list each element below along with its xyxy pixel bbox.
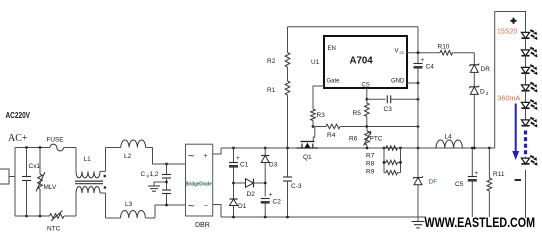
- node Cv bottom: [165, 204, 168, 207]
- svg-text:C: C: [141, 171, 146, 178]
- wire LED4 to LED5: [525, 91, 527, 103]
- svg-text:R10: R10: [438, 44, 450, 51]
- node CS: [365, 98, 368, 101]
- svg-text:DBR: DBR: [195, 222, 210, 229]
- wire down to DR: [473, 53, 475, 65]
- node Vcc/C4: [417, 51, 420, 54]
- wire CS pin down: [366, 88, 368, 99]
- svg-text:+: +: [204, 153, 208, 160]
- node GND pin: [417, 82, 420, 85]
- svg-text:D: D: [480, 89, 485, 96]
- svg-text:GND: GND: [391, 79, 405, 85]
- node Cv top: [165, 163, 168, 166]
- svg-text:∼: ∼: [188, 201, 196, 211]
- diode Dz: [469, 86, 479, 88]
- resistor R8: [386, 160, 398, 164]
- wire DBR- out: [213, 205, 221, 218]
- node D1 bottom: [232, 216, 235, 219]
- wire top to R2: [287, 27, 289, 53]
- node MLV top: [39, 146, 42, 149]
- wire node to R4: [315, 126, 326, 128]
- wire bottom rail: [221, 216, 426, 218]
- svg-text:cc: cc: [400, 50, 405, 55]
- wire AC top line: [15, 147, 50, 149]
- node R11 top: [488, 147, 491, 150]
- diode D1: [230, 198, 238, 200]
- wire top rail: [288, 26, 419, 28]
- wire R1 to rail: [287, 95, 289, 148]
- wire R2 to R1: [287, 67, 289, 81]
- capacitor C5 (electrolytic): [471, 148, 473, 177]
- node C-3 bottom: [286, 216, 289, 219]
- wire Cv mid to ground: [154, 182, 167, 186]
- wire AC+ left vertical: [14, 148, 16, 217]
- LED D2: [521, 50, 529, 56]
- wire LED string bottom: [525, 170, 527, 218]
- svg-text:1,2: 1,2: [150, 171, 159, 178]
- node Cv mid: [165, 181, 168, 184]
- varistor MLV: [39, 148, 41, 175]
- diode DF symbol: [413, 176, 423, 178]
- node R5/R6: [365, 125, 368, 128]
- svg-text:CS: CS: [362, 83, 370, 89]
- svg-text:NTC: NTC: [47, 226, 61, 233]
- node C2 bottom: [264, 216, 267, 219]
- node rail/GND bus: [417, 147, 420, 150]
- svg-text:R7: R7: [366, 153, 375, 160]
- dashed continuation (omitted LEDs): [524, 131, 527, 157]
- capacitor Cv1: [166, 164, 168, 175]
- minus LED string: [515, 179, 522, 181]
- wire NTC to L1: [64, 215, 76, 217]
- svg-text:R3: R3: [317, 112, 326, 119]
- svg-text:Q1: Q1: [303, 154, 312, 161]
- thermistor NTC: [50, 214, 65, 219]
- resistor R9: [386, 170, 398, 174]
- svg-text:+: +: [269, 192, 273, 199]
- svg-text:DF: DF: [429, 179, 438, 186]
- svg-text:R11: R11: [493, 171, 505, 178]
- wire L3 to step: [145, 217, 155, 219]
- wire L2 to DBR upper input: [153, 148, 186, 165]
- svg-text:C3: C3: [384, 106, 393, 113]
- capacitor Cv2: [162, 189, 171, 191]
- node Cx1 bottom: [25, 215, 28, 218]
- wire LED loop top: [495, 12, 526, 149]
- svg-text:360mA: 360mA: [498, 94, 521, 103]
- svg-text:L3: L3: [125, 201, 133, 208]
- node D2 right: [264, 182, 267, 185]
- svg-text:∼: ∼: [188, 151, 196, 161]
- svg-text:A704: A704: [350, 55, 374, 66]
- diode DR: [469, 64, 479, 66]
- node R8 right: [399, 161, 402, 164]
- svg-text:AC220V: AC220V: [6, 111, 31, 120]
- wire GND pin to bus: [407, 82, 419, 84]
- wire L3 to DBR lower input: [155, 205, 186, 218]
- svg-text:C4: C4: [426, 64, 435, 71]
- svg-text:R4: R4: [327, 132, 336, 139]
- ground Cv: [148, 185, 160, 187]
- current arrow 360mA: [515, 104, 517, 152]
- svg-text:D3: D3: [269, 162, 278, 169]
- node C5 top: [471, 147, 474, 150]
- LED D4: [521, 85, 529, 91]
- phase dot L1 top: [103, 175, 106, 178]
- plus LED string: [511, 18, 517, 24]
- LED D1: [521, 32, 529, 38]
- svg-text:U1: U1: [311, 59, 320, 66]
- node C1 top: [232, 147, 235, 150]
- resistor R7: [386, 146, 398, 150]
- LED D3: [521, 67, 529, 73]
- node R7 left: [383, 147, 386, 150]
- svg-text:Gate: Gate: [327, 79, 341, 85]
- capacitor C4 (electrolytic): [417, 53, 419, 64]
- node D3 top: [264, 147, 267, 150]
- node R8 left: [383, 161, 386, 164]
- wire Dz to rail: [473, 94, 475, 148]
- svg-text:R1: R1: [267, 87, 276, 94]
- capacitor C1 (electrolytic): [233, 148, 235, 163]
- wire DBR+ out: [213, 148, 221, 154]
- svg-text:D1: D1: [238, 203, 247, 210]
- svg-text:C-3: C-3: [291, 183, 302, 190]
- svg-text:R2: R2: [267, 58, 276, 65]
- node Cx1 top: [25, 146, 28, 149]
- wire L1 to L2: [105, 148, 107, 172]
- svg-text:R8: R8: [366, 161, 375, 168]
- svg-text:DR: DR: [481, 66, 491, 73]
- wire Gate pin to R3: [313, 86, 324, 109]
- wire drain Q1: [313, 127, 315, 142]
- capacitor Cx1: [26, 148, 28, 177]
- node R6/rail: [366, 147, 369, 150]
- transistor Q1 (N-MOSFET): [301, 141, 315, 143]
- node Dz/rail: [473, 147, 476, 150]
- svg-text:C5: C5: [455, 181, 464, 188]
- phase dot L1 bottom: [104, 186, 107, 189]
- svg-text:EN: EN: [328, 46, 336, 52]
- wire GND bus: [417, 83, 419, 99]
- wire main rail (rectified bus): [221, 147, 495, 149]
- node MLV bottom: [39, 215, 42, 218]
- diode D2: [234, 182, 246, 184]
- svg-text:PTC: PTC: [370, 136, 383, 143]
- wire Vcc pin to R10: [407, 52, 441, 54]
- node R4/GND bus: [417, 125, 420, 128]
- svg-text:R6: R6: [349, 136, 358, 143]
- svg-text:−: −: [204, 203, 208, 210]
- svg-text:C1: C1: [240, 162, 249, 169]
- svg-text:C2: C2: [273, 199, 282, 206]
- wire LED2 to LED3: [525, 56, 527, 68]
- svg-text:BridgeDiode: BridgeDiode: [185, 181, 212, 187]
- op-amp U1 A704 (controller IC): [324, 36, 407, 88]
- svg-text:FUSE: FUSE: [47, 137, 64, 144]
- svg-text:L1: L1: [84, 156, 92, 163]
- svg-text:MLV: MLV: [44, 184, 58, 191]
- svg-text:R9: R9: [366, 169, 375, 176]
- LED D5: [521, 102, 529, 108]
- wire L1 to L3: [105, 193, 107, 218]
- LED D6: [521, 120, 529, 126]
- svg-text:+: +: [475, 170, 479, 177]
- wire DR to Dz: [473, 72, 475, 86]
- svg-text:D2: D2: [247, 191, 256, 198]
- svg-text:L2: L2: [124, 153, 132, 160]
- wire AC bottom line: [15, 215, 50, 217]
- wire R4 to GND bus: [340, 126, 418, 128]
- LED D7: [525, 157, 527, 159]
- node R3/R4: [312, 125, 315, 128]
- svg-text:R5: R5: [353, 110, 362, 117]
- diode D3: [261, 155, 269, 157]
- wire R8/R9 left rail: [383, 148, 385, 173]
- svg-text:WWW.EASTLED.COM: WWW.EASTLED.COM: [425, 214, 536, 230]
- svg-text:AC+: AC+: [8, 133, 28, 144]
- capacitor C2 (electrolytic): [261, 198, 270, 200]
- wire LED5 to LED6: [525, 108, 527, 120]
- wire fuse to L1: [64, 147, 76, 149]
- svg-text:L4: L4: [445, 134, 453, 141]
- plug connector J1: [0, 169, 9, 184]
- node C3/GND bus: [417, 98, 420, 101]
- wire R5 to R4 line: [366, 117, 368, 127]
- svg-text:Cx1: Cx1: [29, 163, 41, 170]
- wire R3 to node: [312, 121, 314, 127]
- node R1/rail: [286, 147, 289, 150]
- node R7 right: [399, 147, 402, 150]
- wire R8/R9 right rail: [400, 148, 402, 173]
- wire top rail right down: [417, 27, 419, 53]
- wire LED3 to LED4: [525, 73, 527, 85]
- capacitor C3: [367, 98, 386, 100]
- capacitor C-3: [287, 148, 289, 177]
- wire rail to D3: [264, 148, 266, 156]
- ground main: [412, 221, 425, 223]
- wire LED1 to LED2: [525, 38, 527, 50]
- svg-text:15S20: 15S20: [497, 28, 517, 35]
- bridge rectifier DBR: [186, 144, 213, 216]
- wire R10 to DR: [453, 52, 475, 54]
- node D2 left: [232, 182, 235, 185]
- svg-text:V: V: [395, 49, 399, 55]
- svg-text:+: +: [421, 57, 425, 64]
